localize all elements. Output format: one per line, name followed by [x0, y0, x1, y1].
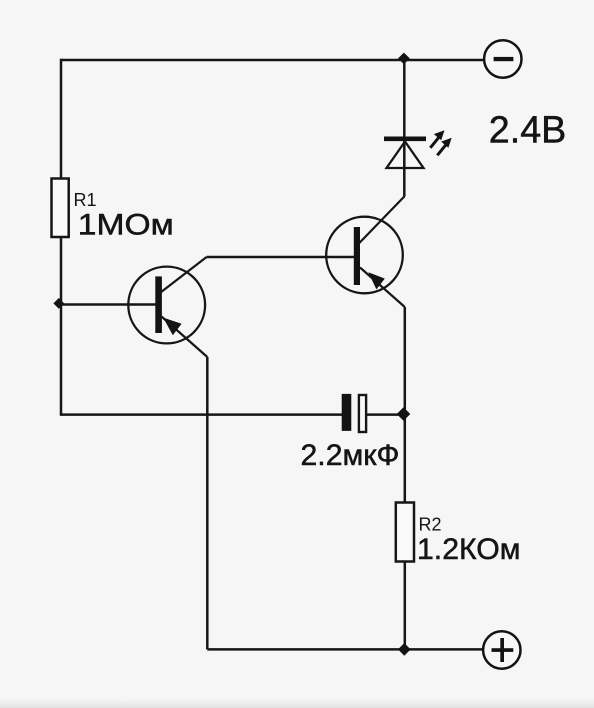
transistor Q1 emitter lead — [162, 317, 208, 358]
junction node A (top) — [398, 53, 410, 65]
wire bottom horizontal (plus rail) — [207, 648, 483, 651]
R2 label — [419, 514, 442, 534]
wire LED vertical (node A to Q2 collector) — [403, 58, 406, 196]
R1 value 1MOm — [78, 209, 174, 242]
terminal plus circle — [483, 631, 520, 668]
svg-text:1МОм: 1МОм — [78, 209, 174, 242]
transistor Q2 collector lead — [359, 196, 405, 244]
junction node D (Q1 base / R1) — [53, 298, 64, 309]
transistor Q1 circle — [128, 267, 205, 344]
LED VD1 triangle — [387, 142, 424, 169]
transistor Q2 base bar — [354, 227, 360, 285]
transistor Q2 emitter arrow — [368, 272, 385, 289]
R2 value 1.2KOm — [417, 533, 521, 566]
svg-text:1.2КОм: 1.2КОм — [417, 533, 521, 566]
capacitor C1 plate positive — [359, 395, 366, 432]
wire capacitor to node B — [367, 413, 401, 416]
resistor R1 — [52, 179, 69, 238]
LED VD1 cathode bar — [384, 137, 426, 142]
transistor Q1 base bar — [155, 276, 162, 333]
wire top horizontal (minus rail) — [61, 59, 483, 62]
wire horizontal to capacitor — [60, 413, 342, 416]
wire left vertical lower — [60, 237, 63, 415]
junction node C (bottom) — [398, 643, 411, 656]
wire Q1 collector to Q2 base — [207, 256, 354, 259]
wire left vertical upper — [60, 59, 63, 179]
R1 label — [74, 190, 97, 210]
C1 value label — [301, 439, 400, 472]
capacitor C1 plate negative — [342, 394, 352, 431]
transistor Q2 emitter lead — [360, 268, 405, 308]
terminal minus sign — [494, 57, 514, 61]
terminal plus sign — [492, 638, 514, 662]
wire Q2 emitter vertical to R2 — [404, 307, 407, 503]
transistor Q2 circle — [326, 217, 403, 294]
terminal minus circle — [484, 40, 521, 77]
svg-text:2.4В: 2.4В — [489, 110, 567, 152]
wire Q1 base — [60, 303, 156, 306]
junction node B (capacitor/emitter) — [397, 407, 411, 420]
wire R2 to bottom rail — [404, 561, 407, 650]
transistor Q1 collector lead — [161, 257, 207, 293]
svg-text:R1: R1 — [74, 190, 97, 210]
voltage label 2.4V — [489, 110, 567, 152]
wire Q1 emitter vertical — [206, 357, 209, 649]
svg-text:R2: R2 — [419, 514, 442, 534]
svg-text:2.2мкФ: 2.2мкФ — [301, 439, 400, 472]
LED VD1 light arrow 1 — [430, 130, 444, 148]
transistor Q1 emitter arrow — [163, 318, 181, 336]
resistor R2 — [396, 503, 414, 562]
LED VD1 light arrow 2 — [437, 138, 451, 156]
